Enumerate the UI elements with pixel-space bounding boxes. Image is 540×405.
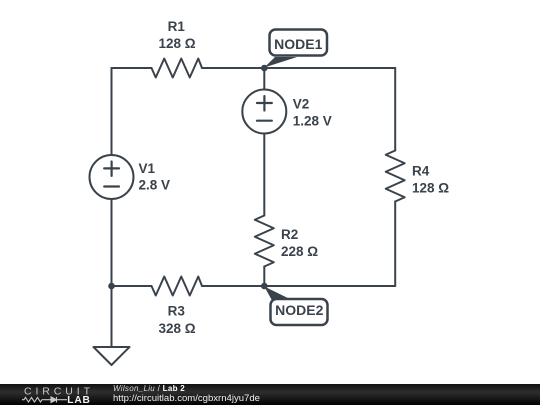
voltage source V1 [90,155,134,199]
svg-text:328 Ω: 328 Ω [158,321,195,336]
wire bottom-right horizontal [202,285,395,287]
wire right lower vertical [394,202,396,287]
wire bottom-left horizontal [112,285,152,287]
svg-text:128 Ω: 128 Ω [412,181,449,196]
svg-text:128 Ω: 128 Ω [158,36,195,51]
wire top-left horizontal [112,67,152,69]
svg-text:R2: R2 [281,227,298,242]
svg-text:1.28 V: 1.28 V [293,114,332,129]
svg-text:V1: V1 [139,161,156,176]
svg-text:2.8 V: 2.8 V [139,178,171,193]
ground [94,347,130,365]
svg-text:LAB: LAB [67,395,90,405]
resistor R4 [386,151,405,202]
wire middle lower vertical [263,267,265,287]
svg-text:R3: R3 [168,304,186,319]
node A junction dot [261,65,268,72]
wire top-right horizontal [202,67,395,69]
resistor R3 [152,277,203,296]
wire ground stub [111,286,113,347]
wire middle mid vertical [263,134,265,216]
node C junction dot [108,283,115,290]
node NODE1 callout [264,30,327,68]
footer bar [0,384,540,405]
wire right upper vertical [394,68,396,151]
node B junction dot [261,283,268,290]
footer title text [113,384,260,403]
svg-text:R1: R1 [168,19,186,34]
svg-text:R4: R4 [412,164,430,179]
voltage source V2 [242,90,286,134]
svg-text:NODE2: NODE2 [275,302,323,318]
resistor R2 [255,216,274,267]
wire middle upper vertical [263,68,265,90]
CircuitLab logo [22,384,100,405]
svg-text:228 Ω: 228 Ω [281,244,318,259]
svg-text:NODE1: NODE1 [274,36,322,52]
node NODE2 callout [264,287,327,326]
wire left lower vertical [111,199,113,286]
resistor R1 [152,59,203,78]
svg-text:V2: V2 [293,97,310,112]
wire left upper vertical [111,68,113,155]
